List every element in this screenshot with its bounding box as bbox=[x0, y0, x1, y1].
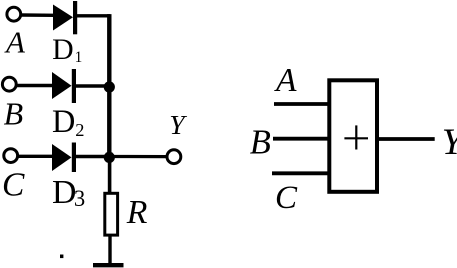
resistor R bbox=[105, 193, 118, 235]
junction dot row B bbox=[104, 81, 115, 92]
wire C to D3 bbox=[17, 155, 54, 158]
diode D3 bbox=[52, 143, 76, 173]
output terminal Y bbox=[167, 150, 181, 164]
svg-text:B: B bbox=[4, 95, 24, 131]
svg-text:Y: Y bbox=[442, 122, 457, 163]
gate input wire A bbox=[274, 102, 330, 106]
gate input wire C bbox=[272, 171, 330, 175]
svg-text:R: R bbox=[126, 194, 148, 231]
OR gate U1 body bbox=[329, 80, 377, 192]
svg-text:1: 1 bbox=[75, 49, 83, 66]
wire junction to output Y bbox=[109, 155, 168, 158]
ground bbox=[93, 263, 124, 267]
svg-text:2: 2 bbox=[75, 120, 84, 140]
svg-text:D: D bbox=[52, 33, 74, 66]
gate input wire B bbox=[273, 137, 330, 141]
svg-text:C: C bbox=[275, 180, 298, 216]
OR plus sign bbox=[344, 125, 368, 149]
svg-text:3: 3 bbox=[74, 186, 85, 211]
wire B to D2 bbox=[16, 84, 54, 87]
svg-text:A: A bbox=[4, 24, 26, 59]
diode D2 bbox=[52, 69, 76, 103]
bus wire vertical bbox=[107, 14, 111, 156]
input terminal C bbox=[4, 149, 18, 163]
wire D1 to bus bbox=[77, 14, 110, 17]
wire D2 to bus bbox=[76, 84, 110, 87]
wire A to D1 bbox=[21, 13, 54, 17]
input terminal B bbox=[2, 77, 16, 91]
svg-text:D: D bbox=[52, 174, 76, 211]
svg-text:Y: Y bbox=[169, 109, 187, 140]
svg-text:A: A bbox=[274, 62, 297, 99]
wire resistor to ground bbox=[108, 237, 111, 265]
wire D3 to junction bbox=[76, 155, 110, 158]
diode D1 bbox=[53, 1, 77, 34]
svg-text:C: C bbox=[2, 166, 25, 203]
gate output wire Y bbox=[377, 137, 435, 141]
scan speckle bbox=[60, 255, 63, 259]
svg-text:D: D bbox=[52, 103, 75, 139]
svg-text:B: B bbox=[250, 124, 271, 162]
input terminal A bbox=[7, 7, 21, 21]
wire junction to resistor bbox=[108, 157, 112, 194]
junction dot row C bbox=[104, 152, 115, 163]
